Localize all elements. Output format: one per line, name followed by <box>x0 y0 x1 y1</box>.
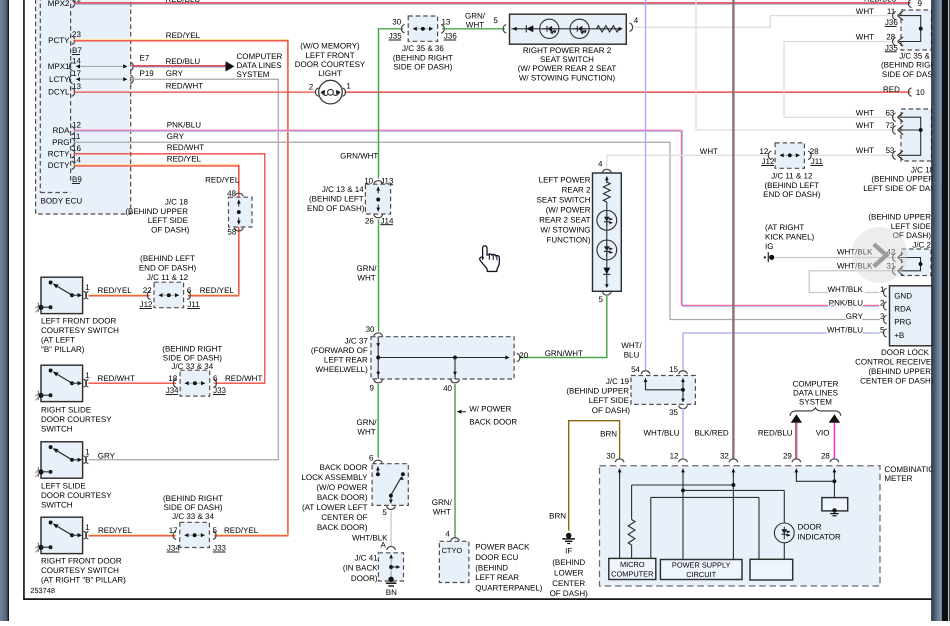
svg-text:29: 29 <box>783 452 792 461</box>
body ECU <box>36 0 131 214</box>
svg-text:RED/YEL: RED/YEL <box>98 286 133 295</box>
wire PNK/BLU RDA to door lock control receiver pin 2 <box>74 120 886 306</box>
svg-text:2: 2 <box>309 82 314 91</box>
wire WHT/BLU J/C 19 pin 35 to combination meter pin 12 <box>644 408 684 459</box>
svg-text:DOOR ECU: DOOR ECU <box>475 553 518 562</box>
svg-text:BACK DOOR: BACK DOOR <box>319 463 367 472</box>
svg-text:SEAT SWITCH: SEAT SWITCH <box>540 55 594 64</box>
svg-text:B7: B7 <box>72 46 82 55</box>
svg-text:CTYO: CTYO <box>442 546 463 555</box>
combination meter pin 28 <box>821 452 839 477</box>
diagram number 253748 <box>30 586 55 595</box>
switch left power rear 2 seat switch <box>537 159 622 304</box>
svg-text:BLK/RED: BLK/RED <box>694 429 728 438</box>
svg-text:J14: J14 <box>381 216 394 225</box>
svg-text:DOOR COURTESY: DOOR COURTESY <box>41 415 112 424</box>
junction J/C 2 (behind upper left side of dash) <box>837 213 932 276</box>
node MPX1 pin 14 <box>48 56 134 71</box>
svg-text:DCTY: DCTY <box>48 161 70 170</box>
box micro computer <box>609 558 656 579</box>
svg-text:J/C 18: J/C 18 <box>911 165 935 174</box>
svg-text:E7: E7 <box>140 54 150 63</box>
wire RED/YEL left front door switch to J/C 11+12 <box>88 286 234 296</box>
svg-text:63: 63 <box>885 108 894 117</box>
wire BLK/RED to combination meter pin 32 <box>694 0 734 459</box>
svg-text:DOOR: DOOR <box>798 522 822 531</box>
svg-text:13: 13 <box>441 17 450 26</box>
svg-text:13: 13 <box>72 82 81 91</box>
svg-text:14: 14 <box>72 155 81 164</box>
svg-text:WHEELWELL): WHEELWELL) <box>315 365 368 374</box>
svg-text:26: 26 <box>365 216 374 225</box>
svg-text:9: 9 <box>918 0 923 8</box>
svg-text:RED/BLU: RED/BLU <box>758 429 793 438</box>
svg-text:MPX1: MPX1 <box>48 62 70 71</box>
svg-text:J/C 11 & 12: J/C 11 & 12 <box>147 273 189 282</box>
meter door indicator LED <box>774 522 841 542</box>
svg-text:RED/BLU: RED/BLU <box>166 0 201 4</box>
svg-text:BODY ECU: BODY ECU <box>41 197 83 206</box>
svg-text:LOWER: LOWER <box>554 568 584 577</box>
svg-text:DATA LINES: DATA LINES <box>793 389 838 398</box>
svg-text:(BEHIND RIGHT: (BEHIND RIGHT <box>163 494 223 503</box>
svg-text:RED/YEL: RED/YEL <box>205 176 240 185</box>
svg-text:WHT: WHT <box>433 508 451 517</box>
svg-text:END OF DASH): END OF DASH) <box>763 190 821 199</box>
svg-text:(BEHIND: (BEHIND <box>475 563 508 572</box>
switch right slide door courtesy switch <box>35 365 90 401</box>
box door lock control receiver <box>855 286 937 386</box>
svg-text:28: 28 <box>886 33 895 42</box>
svg-text:WHT: WHT <box>856 7 874 16</box>
wire RED/WHT RCTY to right slide door courtesy switch <box>74 143 265 383</box>
svg-text:WHT: WHT <box>856 146 874 155</box>
junction J/C 11 + 12 left (behind left end of dash) <box>139 254 200 309</box>
junction J/C 11 + 12 (behind left end of dash) <box>700 143 824 199</box>
svg-text:WHT: WHT <box>700 147 718 156</box>
svg-text:(BEHIND RIGHT: (BEHIND RIGHT <box>393 53 453 62</box>
svg-text:LEFT SIDE: LEFT SIDE <box>891 222 931 231</box>
svg-text:LEFT POWER: LEFT POWER <box>539 176 591 185</box>
svg-text:OF DASH): OF DASH) <box>151 225 190 234</box>
svg-text:(BEHIND UPPER: (BEHIND UPPER <box>868 367 931 376</box>
svg-text:"B" PILLAR): "B" PILLAR) <box>41 345 85 354</box>
svg-text:(W/ POWER: (W/ POWER <box>546 206 591 215</box>
svg-text:23: 23 <box>72 30 81 39</box>
svg-text:1: 1 <box>85 447 90 456</box>
svg-text:LEFT SIDE: LEFT SIDE <box>148 216 188 225</box>
svg-text:LCTY: LCTY <box>49 75 70 84</box>
svg-text:CENTER OF: CENTER OF <box>321 513 367 522</box>
wire WHT J/C 35+36 pin 28 to J/C 18 pin 63 <box>784 42 896 118</box>
svg-text:W/ STOWING FUNCTION): W/ STOWING FUNCTION) <box>519 73 616 82</box>
svg-text:10: 10 <box>916 88 925 97</box>
svg-text:17: 17 <box>169 526 178 535</box>
svg-text:RED/YEL: RED/YEL <box>200 286 235 295</box>
svg-text:WHT: WHT <box>856 108 874 117</box>
svg-text:GRN/: GRN/ <box>357 418 378 427</box>
svg-text:9: 9 <box>370 384 375 393</box>
wire RED/WHT right slide door switch to J/C 33+34 <box>88 374 262 383</box>
svg-text:WHT/: WHT/ <box>621 341 642 350</box>
svg-text:J12: J12 <box>140 300 153 309</box>
svg-text:RED/WHT: RED/WHT <box>166 81 203 90</box>
junction J/C 35 + 36 (behind right side of dash) <box>389 16 458 72</box>
box meter right (unlabeled) <box>750 559 793 580</box>
svg-text:12: 12 <box>670 452 679 461</box>
svg-text:(BEHIND UPPER: (BEHIND UPPER <box>871 175 934 184</box>
node computer data lines system (top) <box>237 52 283 79</box>
node computer data lines system (bottom) <box>790 379 841 416</box>
ground BN <box>386 577 397 597</box>
svg-text:VIO: VIO <box>816 429 830 438</box>
wire GRN/WHT J/C37 pin 40 to power back door ECU <box>432 384 455 538</box>
svg-text:BN: BN <box>386 588 397 597</box>
svg-text:GRN/WHT: GRN/WHT <box>340 152 378 161</box>
junction J/C 41 (in back door) <box>343 547 404 583</box>
svg-text:(BEHIND LEFT: (BEHIND LEFT <box>764 181 819 190</box>
svg-text:11: 11 <box>72 132 81 141</box>
svg-text:(BEHIND: (BEHIND <box>552 558 585 567</box>
junction J/C 37 (forward of left rear wheelwell) <box>311 325 529 393</box>
svg-text:RED/BLU: RED/BLU <box>166 57 201 66</box>
node MPX2 pin 21 <box>48 0 75 8</box>
svg-text:1: 1 <box>85 523 90 532</box>
svg-text:J/C 35 & 36: J/C 35 & 36 <box>402 44 444 53</box>
svg-text:LEFT REAR: LEFT REAR <box>475 573 519 582</box>
switch back door lock assembly <box>301 454 408 532</box>
wire WHT/BLU vertical to J/C 19 pin 54 <box>621 0 645 370</box>
svg-text:BACK DOOR: BACK DOOR <box>469 417 517 426</box>
svg-text:MICRO: MICRO <box>620 560 645 569</box>
svg-text:RED/BLU: RED/BLU <box>864 0 897 4</box>
svg-text:CIRCUIT: CIRCUIT <box>686 570 716 579</box>
node B9 <box>72 175 83 184</box>
svg-text:CONTROL RECEIVER: CONTROL RECEIVER <box>855 358 937 367</box>
svg-text:4: 4 <box>598 159 603 168</box>
svg-text:6: 6 <box>187 286 192 295</box>
node MPX2 pin number (clipped) <box>72 0 81 4</box>
node LCTY pin 17 <box>49 69 133 84</box>
svg-text:5: 5 <box>213 526 218 535</box>
svg-text:BRN: BRN <box>549 511 566 520</box>
svg-text:A: A <box>380 541 386 550</box>
wire WHT/BLK J/C2 pin 31 to receiver pin 1 <box>809 271 896 293</box>
diagram frame <box>23 0 25 600</box>
node RDA pin 12 <box>53 121 82 136</box>
wire RED/BLU to combination meter pin 29 <box>758 414 802 459</box>
svg-text:MPX2: MPX2 <box>48 0 70 8</box>
right scrollbar / window edge <box>931 0 950 621</box>
svg-text:J35: J35 <box>885 43 898 52</box>
svg-text:12: 12 <box>72 121 81 130</box>
svg-text:(W/O MEMORY): (W/O MEMORY) <box>300 42 360 51</box>
svg-text:PNK/BLU: PNK/BLU <box>167 120 201 129</box>
svg-text:+B: +B <box>894 331 904 340</box>
node RCTY pin 16 <box>48 144 82 159</box>
svg-text:1: 1 <box>346 82 351 91</box>
svg-text:WHT: WHT <box>357 428 375 437</box>
svg-text:RED/YEL: RED/YEL <box>224 526 259 535</box>
svg-text:J/C 2: J/C 2 <box>912 240 931 249</box>
svg-text:17: 17 <box>72 69 81 78</box>
svg-text:RIGHT POWER REAR 2: RIGHT POWER REAR 2 <box>523 46 612 55</box>
svg-text:SIDE OF DASH): SIDE OF DASH) <box>393 63 452 72</box>
svg-text:GRN/: GRN/ <box>432 498 453 507</box>
wire WHT/BLK to J/C 41 <box>352 510 391 549</box>
svg-text:GRY: GRY <box>167 132 185 141</box>
svg-text:WHT: WHT <box>856 121 874 130</box>
svg-text:73: 73 <box>885 121 894 130</box>
svg-text:POWER SUPPLY: POWER SUPPLY <box>672 561 731 570</box>
svg-text:PNK/BLU: PNK/BLU <box>829 299 863 308</box>
svg-text:SIDE OF DASH): SIDE OF DASH) <box>163 503 222 512</box>
svg-text:COURTESY SWITCH: COURTESY SWITCH <box>41 326 119 335</box>
wire RED/YEL DCTY via J/C 18 to left front door courtesy switch <box>74 155 240 296</box>
svg-text:RED/WHT: RED/WHT <box>98 374 135 383</box>
combination meter pin 12 <box>670 452 688 477</box>
svg-text:END OF DASH): END OF DASH) <box>307 204 365 213</box>
svg-text:(BEHIND UPPER: (BEHIND UPPER <box>125 207 188 216</box>
svg-text:LIGHT: LIGHT <box>318 69 342 78</box>
svg-text:20: 20 <box>519 351 528 360</box>
svg-text:(BEHIND UPPER: (BEHIND UPPER <box>868 213 931 222</box>
svg-text:12: 12 <box>759 147 768 156</box>
svg-text:COURTESY SWITCH: COURTESY SWITCH <box>41 566 119 575</box>
svg-text:RCTY: RCTY <box>48 149 70 158</box>
svg-text:WHT: WHT <box>856 33 874 42</box>
svg-text:WHT/BLU: WHT/BLU <box>827 326 863 335</box>
svg-text:J/C 19: J/C 19 <box>606 377 630 386</box>
svg-text:40: 40 <box>443 384 452 393</box>
svg-text:CENTER: CENTER <box>552 579 585 588</box>
svg-text:GRY: GRY <box>846 312 864 321</box>
junction J/C 33 + 34 second (behind right side of dash) <box>163 494 227 552</box>
svg-text:RED/YEL: RED/YEL <box>166 31 201 40</box>
node DCTY pin 14 <box>48 155 82 170</box>
junction J/C 35 + 36 right (behind right side of dash) <box>856 7 942 79</box>
svg-text:4: 4 <box>634 16 639 25</box>
svg-text:SYSTEM: SYSTEM <box>799 398 832 407</box>
svg-text:J/C 13 & 14: J/C 13 & 14 <box>322 185 364 194</box>
svg-text:WHT: WHT <box>357 274 375 283</box>
svg-text:J36: J36 <box>885 18 898 27</box>
wire RED/BLU MPX2 to J/C 35+36 pin 9 <box>74 0 923 8</box>
wire GRN/WHT J/C37 pin 9 to back door lock assembly <box>357 384 379 458</box>
svg-text:35: 35 <box>669 408 678 417</box>
svg-text:PCTY: PCTY <box>48 36 70 45</box>
svg-text:(BEHIND LEFT: (BEHIND LEFT <box>140 254 195 263</box>
svg-text:58: 58 <box>227 227 236 236</box>
svg-text:253748: 253748 <box>30 586 55 595</box>
svg-text:(BEHIND LEFT: (BEHIND LEFT <box>309 195 364 204</box>
svg-text:DOOR LOCK: DOOR LOCK <box>881 348 930 357</box>
svg-text:LEFT SIDE: LEFT SIDE <box>589 396 629 405</box>
svg-text:J/C 37: J/C 37 <box>345 337 369 346</box>
wire GRY LCTY/P19 to left slide door courtesy switch <box>88 69 278 460</box>
wire WHT/BLU receiver pin 5 to J/C 19 pin 15 <box>683 333 886 370</box>
combination meter pin 32 <box>720 452 738 477</box>
junction J/C 19 (behind upper left side of dash) <box>566 365 695 417</box>
lamp left front door courtesy light <box>295 42 366 104</box>
svg-text:PRG: PRG <box>894 318 911 327</box>
node B7 <box>72 46 83 55</box>
svg-text:6: 6 <box>369 454 374 463</box>
svg-text:4: 4 <box>445 529 450 538</box>
svg-text:B9: B9 <box>72 175 82 184</box>
svg-text:(BEHIND RIGHT: (BEHIND RIGHT <box>162 345 222 354</box>
svg-text:LEFT FRONT: LEFT FRONT <box>305 51 354 60</box>
svg-text:5: 5 <box>382 508 387 517</box>
svg-text:J33: J33 <box>213 386 226 395</box>
wire RED/YEL PCTY to right front door courtesy switch <box>74 31 289 536</box>
svg-text:J11: J11 <box>187 300 200 309</box>
svg-text:WHT/BLU: WHT/BLU <box>644 429 680 438</box>
switch left front door courtesy switch <box>35 277 90 313</box>
svg-text:BLU: BLU <box>624 350 640 359</box>
wire WHT/BLK IG to J/C2 pin 42 <box>764 252 896 262</box>
svg-text:J11: J11 <box>811 157 824 166</box>
svg-text:DOOR COURTESY: DOOR COURTESY <box>295 60 366 69</box>
svg-text:IG: IG <box>765 242 773 251</box>
node W/ POWER BACK DOOR <box>457 405 517 427</box>
svg-text:SYSTEM: SYSTEM <box>237 70 270 79</box>
svg-text:11: 11 <box>887 7 896 16</box>
svg-text:J/C 41: J/C 41 <box>354 554 378 563</box>
meter pins 29/28 network with internal ground <box>796 472 847 516</box>
receiver pin labels <box>827 285 887 337</box>
svg-text:GRN/WHT: GRN/WHT <box>545 349 583 358</box>
svg-text:WHT/BLK: WHT/BLK <box>827 285 863 294</box>
svg-text:COMPUTER: COMPUTER <box>611 569 653 578</box>
svg-text:(BEHIND UPPER: (BEHIND UPPER <box>566 387 629 396</box>
svg-text:18: 18 <box>168 374 177 383</box>
svg-text:(AT LOWER LEFT: (AT LOWER LEFT <box>302 503 368 512</box>
svg-text:IF: IF <box>565 546 572 555</box>
svg-text:RED/WHT: RED/WHT <box>225 374 262 383</box>
svg-text:54: 54 <box>631 365 640 374</box>
power source IG (at right kick panel) <box>765 223 815 251</box>
svg-text:RED: RED <box>883 85 900 94</box>
svg-text:32: 32 <box>720 452 729 461</box>
junction J/C 18 right (behind upper left side of dash) <box>856 108 945 193</box>
node DCYL pin 13 <box>48 82 81 97</box>
svg-text:30: 30 <box>606 452 615 461</box>
meter internal wiring <box>620 472 785 560</box>
svg-text:LEFT SLIDE: LEFT SLIDE <box>41 482 86 491</box>
svg-text:W/ STOWING: W/ STOWING <box>540 226 590 235</box>
wire RED/YEL right front door switch to J/C 33+34 <box>88 526 258 536</box>
node PCTY pin 23 <box>48 30 81 45</box>
svg-text:SEAT SWITCH: SEAT SWITCH <box>537 196 591 205</box>
svg-text:5: 5 <box>493 16 498 25</box>
svg-text:(AT LEFT: (AT LEFT <box>41 335 75 344</box>
svg-text:DOOR COURTESY: DOOR COURTESY <box>41 491 112 500</box>
wire VIO to combination meter pin 28 <box>816 414 840 459</box>
wire GRN/WHT J/C13+14 to J/C 37 <box>357 219 379 331</box>
svg-text:28: 28 <box>821 452 830 461</box>
combination meter box <box>600 465 941 586</box>
svg-text:REAR 2: REAR 2 <box>562 186 591 195</box>
svg-text:BACK DOOR): BACK DOOR) <box>317 523 368 532</box>
wire WHT left seat switch pin 4 to J/C 18 pin 53 <box>607 155 896 167</box>
svg-text:QUARTERPANEL): QUARTERPANEL) <box>475 583 543 592</box>
svg-text:J33: J33 <box>213 544 226 553</box>
svg-text:POWER BACK: POWER BACK <box>475 542 530 551</box>
wire RED/WHT DCYL to courtesy light and RED to pin 10 <box>74 81 926 97</box>
svg-text:RDA: RDA <box>894 305 912 314</box>
svg-text:DCYL: DCYL <box>48 88 70 97</box>
svg-text:15: 15 <box>669 365 678 374</box>
junction J/C 33 + 34 (behind right side of dash) <box>162 345 226 397</box>
svg-text:OF DASH): OF DASH) <box>550 589 589 598</box>
svg-text:LOCK ASSEMBLY: LOCK ASSEMBLY <box>301 473 368 482</box>
svg-text:GND: GND <box>894 291 912 300</box>
svg-text:5: 5 <box>599 295 604 304</box>
svg-text:WHT: WHT <box>466 20 484 29</box>
svg-text:W/ POWER: W/ POWER <box>469 405 511 414</box>
svg-text:RED/YEL: RED/YEL <box>98 526 133 535</box>
svg-text:6: 6 <box>213 374 218 383</box>
svg-text:J/C 11 & 12: J/C 11 & 12 <box>771 172 813 181</box>
svg-text:(FORWARD OF: (FORWARD OF <box>311 346 368 355</box>
switch left slide door courtesy switch <box>35 442 90 478</box>
svg-text:16: 16 <box>72 144 81 153</box>
junction J/C 18 (behind upper left side of dash) <box>125 176 252 237</box>
svg-text:1: 1 <box>85 371 90 380</box>
svg-text:J36: J36 <box>444 32 457 41</box>
wire RED/BLU MPX1/E7 to computer data lines system <box>132 54 235 72</box>
svg-text:(W/O POWER: (W/O POWER <box>316 483 367 492</box>
combination meter pin 30 <box>606 452 624 477</box>
wire BRN combination meter pin 30 to ground IF <box>549 421 619 531</box>
svg-text:14: 14 <box>72 56 81 65</box>
svg-text:COMPUTER: COMPUTER <box>793 379 839 388</box>
svg-text:OF DASH): OF DASH) <box>592 406 631 415</box>
svg-text:53: 53 <box>885 146 894 155</box>
svg-text:CENTER OF DASH): CENTER OF DASH) <box>860 377 934 386</box>
svg-text:DATA LINES: DATA LINES <box>237 61 282 70</box>
box power supply circuit <box>660 560 742 580</box>
svg-text:(AT RIGHT: (AT RIGHT <box>765 223 804 232</box>
wire GRY PRG to door lock control receiver pin 3 <box>74 132 886 320</box>
switch right front door courtesy switch <box>35 517 90 553</box>
svg-text:REAR 2 SEAT: REAR 2 SEAT <box>539 216 591 225</box>
svg-text:J35: J35 <box>389 32 402 41</box>
svg-text:30: 30 <box>366 325 375 334</box>
svg-text:J12: J12 <box>762 157 775 166</box>
svg-text:28: 28 <box>810 147 819 156</box>
connector CTYO power back door ECU <box>439 529 542 592</box>
svg-text:J/C 18: J/C 18 <box>165 197 189 206</box>
svg-text:RED/YEL: RED/YEL <box>167 155 202 164</box>
svg-text:KICK PANEL): KICK PANEL) <box>765 232 815 241</box>
svg-text:J34: J34 <box>167 544 180 553</box>
wire WHT right seat switch pin 4 to J/C 35+36 pin 11 <box>634 16 897 28</box>
svg-text:METER: METER <box>884 474 912 483</box>
svg-text:GRN/: GRN/ <box>465 11 486 20</box>
svg-text:FUNCTION): FUNCTION) <box>547 236 591 245</box>
svg-text:(AT RIGHT "B" PILLAR): (AT RIGHT "B" PILLAR) <box>41 576 126 585</box>
svg-text:INDICATOR: INDICATOR <box>798 533 841 542</box>
svg-text:J34: J34 <box>166 386 179 395</box>
svg-text:22: 22 <box>143 286 152 295</box>
svg-text:(W/ POWER REAR 2 SEAT: (W/ POWER REAR 2 SEAT <box>518 64 617 73</box>
svg-text:30: 30 <box>392 17 401 26</box>
svg-text:P19: P19 <box>140 69 155 78</box>
watermark nav circle overlay <box>852 227 908 283</box>
wire GRN/WHT left seat switch pin 5 to J/C 37 pin 20 <box>520 295 607 359</box>
